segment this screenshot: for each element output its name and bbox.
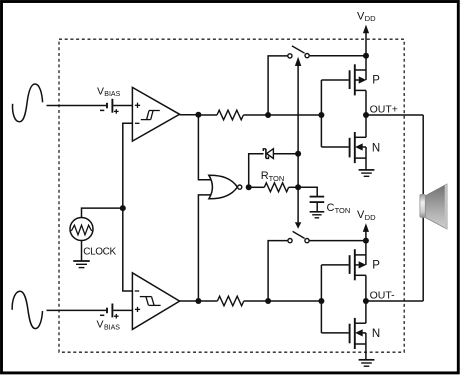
- node VDD2 / switch junction: [363, 238, 369, 244]
- switch SW2: [288, 231, 366, 242]
- node U3 output: [246, 184, 252, 190]
- wire U2 output node to NOR input B: [198, 195, 213, 301]
- label OUT-: [370, 289, 396, 301]
- ground under CTON: [310, 212, 325, 218]
- clock node on feedback line: [120, 205, 126, 211]
- gate U3 (NOR): [209, 175, 242, 199]
- node U1 output: [195, 112, 201, 118]
- transistor N2 (N-channel MOSFET): [321, 301, 366, 360]
- label VDD1: [357, 10, 376, 23]
- node U2 output: [195, 298, 201, 304]
- node RTON / control line: [295, 184, 301, 190]
- wire node up to switch SW1: [268, 56, 288, 115]
- clock source CLOCK: [70, 218, 93, 241]
- resistor R1: [198, 110, 268, 120]
- label P1: [372, 75, 380, 87]
- svg-text:C: C: [327, 202, 335, 214]
- supply VDD1: [363, 25, 369, 56]
- wire OUT- to speaker bus: [366, 300, 423, 302]
- node G1: [318, 112, 324, 118]
- wire U1 inverting input to clock node: [123, 123, 133, 291]
- hysteresis symbol U1: [141, 111, 160, 120]
- svg-text:DD: DD: [365, 213, 376, 222]
- input source sine IN+: [13, 84, 43, 122]
- svg-text:N: N: [372, 328, 380, 340]
- label VBIAS1: [97, 85, 121, 98]
- svg-text:TON: TON: [335, 206, 351, 215]
- transistor P2 (P-channel MOSFET): [321, 241, 366, 301]
- wire node to gate node G2: [268, 300, 321, 302]
- svg-text:TON: TON: [269, 174, 285, 183]
- wire clock node to clock source: [82, 208, 123, 218]
- wire IN+ to battery: [47, 105, 107, 107]
- wire node to gate node G1: [268, 114, 321, 116]
- wire clock to ground: [81, 241, 83, 261]
- label VDD2: [357, 209, 376, 222]
- hysteresis symbol U2: [140, 297, 161, 306]
- switch control arrow down: [295, 222, 301, 229]
- svg-text:N: N: [372, 142, 380, 154]
- node VDD1 / switch junction: [363, 53, 369, 59]
- wire OUT+ to speaker bus: [366, 114, 423, 116]
- input source sine IN-: [12, 291, 42, 328]
- node R2 right / SW2 branch: [265, 298, 271, 304]
- svg-text:V: V: [97, 319, 104, 331]
- gate bus G2: [320, 265, 322, 333]
- wire U2 output: [180, 300, 199, 302]
- speaker LS1: [420, 184, 447, 229]
- node OUT-: [363, 298, 369, 304]
- wire U1 output: [180, 114, 199, 116]
- gate bus G1: [320, 80, 322, 147]
- resistor RTON: [249, 183, 298, 192]
- comparator U1: [132, 87, 179, 141]
- label N1: [372, 142, 380, 154]
- svg-text:BIAS: BIAS: [104, 91, 120, 98]
- wire node to NOR input A: [198, 115, 213, 180]
- node diode / control line: [295, 151, 301, 157]
- svg-text:CLOCK: CLOCK: [83, 247, 116, 258]
- diode D1: [263, 149, 298, 159]
- capacitor CTON: [298, 187, 324, 211]
- label RTON: [261, 170, 285, 183]
- diode D1 (Schottky) branch wire: [249, 154, 264, 188]
- label P2: [372, 260, 380, 272]
- svg-text:OUT-: OUT-: [370, 289, 396, 301]
- battery VBIAS1: [100, 99, 132, 114]
- label CLOCK: [83, 247, 116, 258]
- node G2: [318, 298, 324, 304]
- ground under clock: [73, 261, 90, 268]
- speaker bus wire: [422, 115, 424, 301]
- node R1 right / SW1 branch: [265, 112, 271, 118]
- node OUT+: [363, 112, 369, 118]
- battery VBIAS2: [100, 304, 132, 319]
- wire IN- to battery: [47, 309, 107, 311]
- ground under N2: [359, 360, 375, 366]
- label VBIAS2: [97, 319, 121, 332]
- wire node up to switch SW2: [268, 241, 288, 301]
- supply VDD2: [363, 223, 369, 240]
- svg-text:P: P: [372, 75, 380, 87]
- svg-text:R: R: [261, 170, 269, 182]
- label N2: [372, 328, 380, 340]
- switch SW1: [288, 46, 366, 58]
- svg-text:V: V: [97, 85, 104, 97]
- svg-text:BIAS: BIAS: [104, 324, 120, 331]
- comparator U2: [132, 273, 179, 330]
- svg-text:P: P: [372, 260, 380, 272]
- dashed amplifier boundary box: [59, 39, 404, 352]
- label CTON: [327, 202, 351, 215]
- transistor P1 (P-channel MOSFET): [321, 56, 366, 115]
- resistor R2: [198, 296, 268, 306]
- ground under N1: [359, 170, 375, 176]
- svg-text:OUT+: OUT+: [370, 103, 398, 115]
- control line from timing node: [297, 66, 299, 223]
- svg-text:DD: DD: [365, 14, 376, 23]
- label OUT+: [370, 103, 398, 115]
- transistor N1 (N-channel MOSFET): [321, 115, 366, 170]
- switch control arrow up: [295, 57, 301, 66]
